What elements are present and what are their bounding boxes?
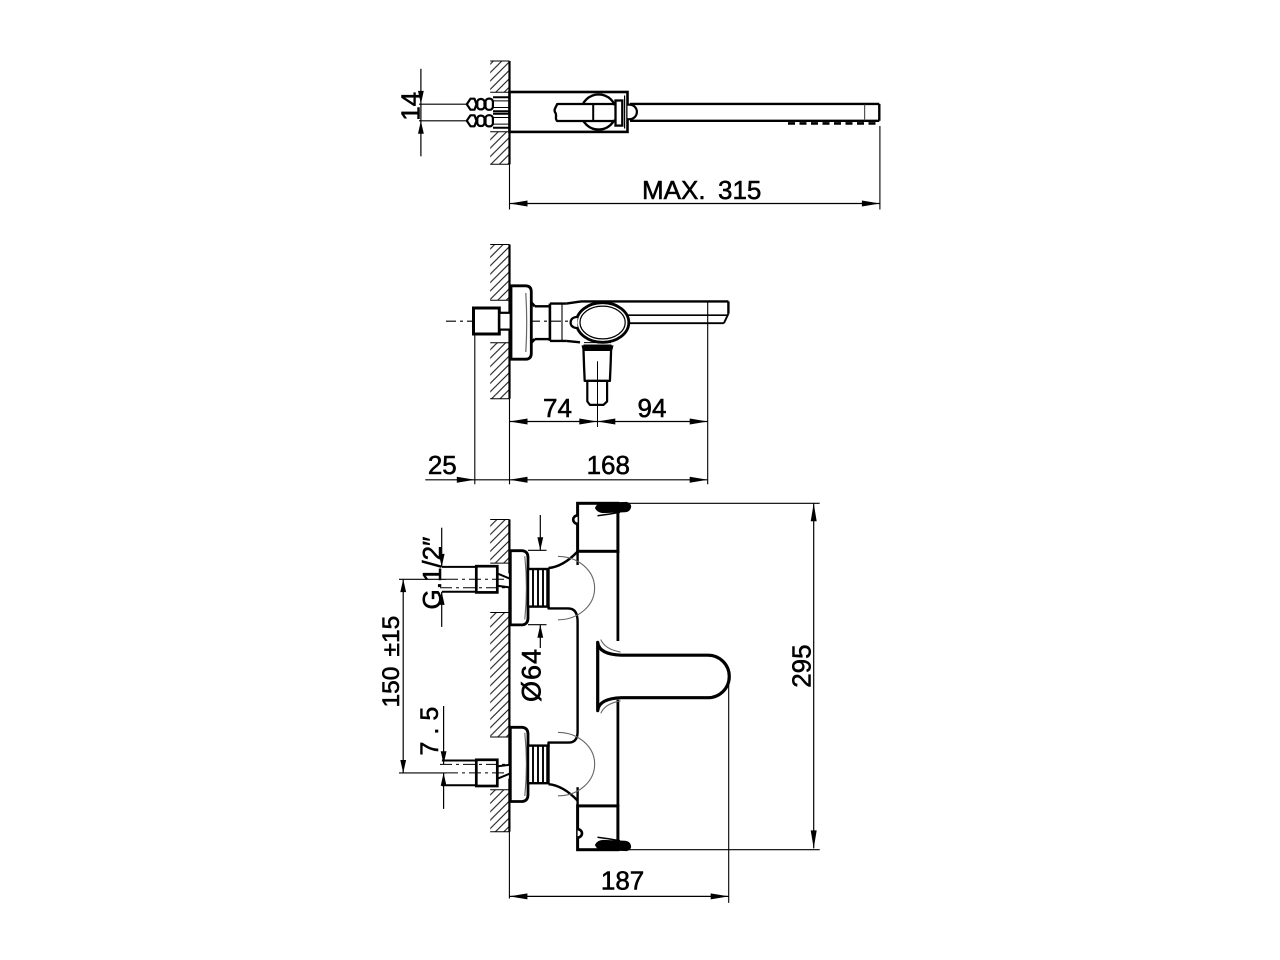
svg-text:187: 187 [601,866,644,896]
svg-text:315: 315 [718,175,761,205]
svg-text:MAX.: MAX. [642,175,706,205]
svg-text:±15: ±15 [378,616,405,657]
svg-text:94: 94 [638,393,667,423]
svg-text:14: 14 [395,92,425,121]
svg-text:150: 150 [378,667,405,708]
svg-text:G.1/2″: G.1/2″ [417,537,447,610]
svg-text:74: 74 [543,393,572,423]
svg-text:7.5: 7.5 [416,700,444,756]
svg-text:25: 25 [428,450,457,480]
svg-text:Ø64: Ø64 [516,648,546,702]
svg-text:168: 168 [587,450,630,480]
svg-text:295: 295 [787,644,817,687]
